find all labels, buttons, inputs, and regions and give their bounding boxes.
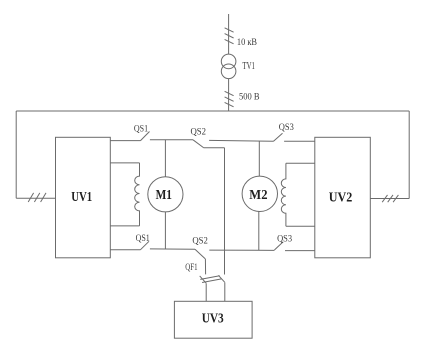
wire bottom row right section [209, 249, 274, 251]
switch QS3 top blade [274, 133, 283, 141]
wire bus 500V [16, 110, 409, 112]
svg-text:QS1: QS1 [136, 234, 150, 244]
wire bottom row QS1 to QS2 [150, 248, 195, 250]
inductor coil of UV2 [281, 163, 315, 226]
svg-text:M2: M2 [249, 187, 267, 202]
svg-text:M1: M1 [156, 187, 173, 202]
svg-text:500 В: 500 В [239, 93, 260, 103]
wire feeder top [228, 14, 230, 54]
wire jog QS2 to center line [204, 147, 225, 149]
wire left horizontal to UV1 [16, 197, 55, 199]
wire QF1 to UV3 right [224, 283, 226, 301]
wire QF1 to UV3 left [205, 284, 207, 302]
wire center reserve line [224, 148, 226, 275]
wire feeder lower [228, 79, 230, 111]
svg-text:QS3: QS3 [277, 234, 292, 244]
svg-text:QF1: QF1 [185, 263, 197, 273]
switch QS3 bottom blade [274, 242, 283, 250]
wire left drop [15, 111, 17, 198]
switch QS1 bottom blade [141, 241, 150, 249]
svg-text:UV3: UV3 [202, 311, 224, 326]
wire right horizontal to UV2 [370, 198, 409, 200]
wire top row right section [209, 139, 273, 142]
UV3 box [174, 301, 252, 338]
motor M2 circle [242, 176, 277, 211]
svg-text:QS3: QS3 [279, 123, 294, 133]
UV2 box [315, 137, 371, 257]
hatch marks 500V side [225, 91, 234, 107]
breaker QF1 contacts [200, 275, 225, 283]
UV1 box [56, 137, 111, 257]
wire QS2 drop to QF1 [204, 259, 206, 275]
svg-text:QS2: QS2 [191, 127, 207, 137]
switch QS2 top blade [193, 140, 204, 148]
hatch marks 10kV side [225, 28, 234, 44]
svg-text:10 кВ: 10 кВ [237, 38, 257, 48]
svg-text:QS2: QS2 [192, 237, 208, 247]
wire top row QS3 to UV2 [284, 140, 315, 142]
wire right drop [408, 111, 410, 199]
wire M2 feed top [258, 141, 260, 176]
switch QS2 bottom blade [195, 249, 205, 258]
wire M2 feed bottom [258, 212, 260, 251]
transformer TV1 [221, 54, 236, 78]
wire M1 feed bottom [164, 212, 166, 249]
wire top row UV1 to QS1 [110, 140, 140, 142]
inductor coil of UV1 [110, 163, 139, 226]
wire top row QS1 to QS2 [150, 139, 193, 141]
wire bottom row UV1 to QS1 [110, 249, 140, 251]
svg-text:TV1: TV1 [242, 61, 255, 72]
wire M1 feed top [164, 140, 166, 177]
hatch marks left wire [28, 193, 46, 202]
wire bottom row QS3 to UV2 [285, 250, 315, 252]
svg-text:UV2: UV2 [329, 189, 353, 204]
motor M1 circle [148, 177, 183, 212]
switch QS1 top blade [141, 132, 150, 141]
svg-text:QS1: QS1 [134, 124, 148, 134]
svg-text:UV1: UV1 [71, 189, 92, 204]
hatch marks right wire [382, 195, 398, 202]
